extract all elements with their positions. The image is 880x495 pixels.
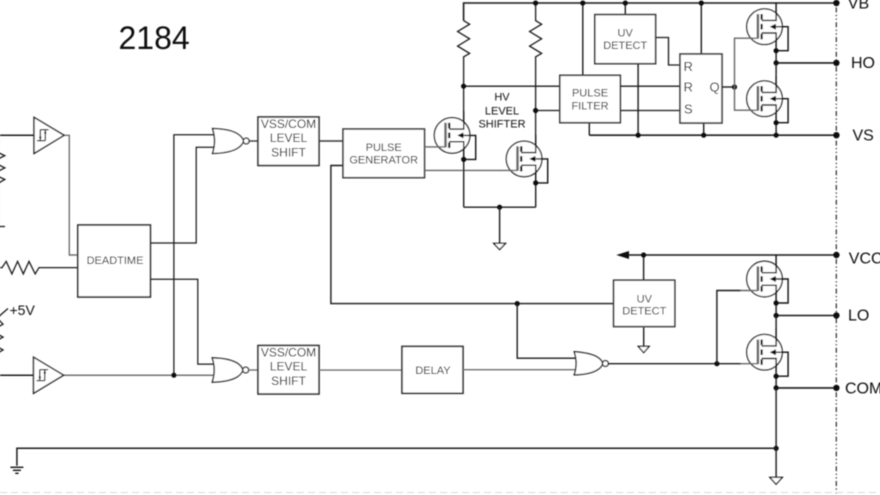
- transistor M2: [500, 135, 548, 186]
- svg-text:DEADTIME: DEADTIME: [87, 255, 144, 267]
- transistor M6: [741, 328, 789, 379]
- box PULSE GENERATOR: [343, 129, 425, 178]
- svg-text:VSS/COM: VSS/COM: [261, 346, 316, 360]
- latch U3 (RS latch): [680, 54, 722, 123]
- svg-text:VSS/COM: VSS/COM: [261, 117, 316, 131]
- svg-text:LO: LO: [848, 307, 869, 324]
- label HV LEVEL SHIFTER: [478, 92, 525, 131]
- svg-text:DELAY: DELAY: [415, 365, 451, 377]
- resistor R1 (clipped at left edge): [0, 135, 5, 222]
- NOR gate G2: [212, 358, 248, 382]
- wire gate lead M1: [425, 146, 429, 148]
- svg-text:LEVEL: LEVEL: [270, 359, 308, 373]
- wire to VS arrow: [499, 207, 501, 243]
- wire VB rail: [464, 3, 837, 21]
- svg-text:HO: HO: [851, 55, 875, 72]
- svg-text:LEVEL: LEVEL: [270, 131, 308, 145]
- svg-text:DETECT: DETECT: [622, 306, 666, 318]
- svg-text:R: R: [684, 59, 693, 74]
- wire LO: [776, 315, 836, 317]
- resistor R5 (level shifter right): [530, 3, 542, 135]
- wire G3 out to gates: [608, 363, 741, 365]
- wire to DELAY: [319, 369, 402, 371]
- svg-text:LEVEL: LEVEL: [485, 105, 519, 117]
- wire M6 drain up: [775, 316, 777, 329]
- pin COM: [833, 385, 839, 391]
- svg-text:Q: Q: [710, 80, 720, 95]
- wire ground bus: [17, 448, 776, 465]
- bottom faint boundary: [0, 492, 880, 494]
- node junction LIN line: [171, 373, 176, 378]
- node junction: [515, 301, 520, 306]
- buffer U2 (schmitt): [34, 357, 64, 393]
- ground symbol: [10, 467, 23, 473]
- wire LIN input: [0, 374, 34, 376]
- transistor M5: [741, 255, 789, 306]
- wire VS rail: [589, 134, 836, 136]
- UV low open arrow: [638, 346, 649, 352]
- wire latch bottom to VS rail: [703, 123, 705, 135]
- wire pulse gen to UV detect low: [331, 166, 614, 304]
- svg-text:HV: HV: [494, 92, 510, 104]
- wire VB to pulse filter: [582, 3, 584, 75]
- pin VB: [833, 0, 839, 6]
- wire R4 node to pulse filter R: [464, 85, 560, 87]
- box PULSE FILTER: [560, 75, 621, 122]
- wire crossover HIN to G1: [174, 135, 217, 376]
- pin LO: [833, 312, 839, 318]
- svg-text:SHIFTER: SHIFTER: [478, 119, 525, 131]
- NOR gate G1: [213, 129, 250, 154]
- svg-text:2184: 2184: [119, 20, 190, 56]
- wire M6 source to COM: [775, 376, 777, 388]
- wire gate bus high side: [735, 38, 741, 110]
- svg-text:+5V: +5V: [10, 302, 36, 318]
- svg-text:GENERATOR: GENERATOR: [349, 155, 418, 167]
- wire gate lead M2: [425, 169, 501, 171]
- wire DELAY to NOR G3: [463, 369, 579, 371]
- buffer U1 (schmitt): [34, 117, 64, 153]
- wire R5 node to pulse filter S: [536, 110, 560, 112]
- transistor M1: [428, 111, 476, 162]
- box UV DETECT (high): [595, 15, 656, 64]
- pin VS: [833, 132, 839, 138]
- wire M5 source to LO: [775, 303, 777, 316]
- wire DEADTIME out1 to NOR G1: [150, 147, 216, 243]
- wire M2 source down: [535, 183, 537, 207]
- pin VCC: [833, 252, 839, 258]
- wire Q out: [722, 86, 735, 88]
- svg-text:UV: UV: [618, 28, 634, 40]
- box VSS/COM LEVEL SHIFT (high): [258, 117, 319, 166]
- svg-text:VCC: VCC: [849, 251, 880, 268]
- VS open arrow: [494, 243, 506, 249]
- wire to pulse generator: [319, 140, 343, 142]
- wire COM: [776, 387, 836, 389]
- IC boundary (dash-dot): [835, 0, 837, 495]
- transistor M3: [741, 3, 789, 54]
- svg-text:FILTER: FILTER: [571, 101, 608, 113]
- wire gate bus low side: [717, 291, 741, 364]
- box UV DETECT (low): [614, 280, 675, 326]
- box DEADTIME: [78, 225, 151, 297]
- node VB-R5: [533, 0, 538, 5]
- wire M1 source down: [463, 159, 465, 207]
- box DELAY: [402, 346, 463, 393]
- wire M4 drain up: [775, 63, 777, 75]
- svg-text:UV: UV: [637, 294, 653, 306]
- COM open arrow: [770, 477, 783, 484]
- wire HO: [776, 62, 836, 64]
- wire VCC rail: [629, 254, 837, 256]
- wire buffer U1 output to DEADTIME: [64, 135, 78, 255]
- wire buffer U2 output: [64, 374, 217, 376]
- resistor R4 (level shifter left): [458, 21, 470, 112]
- resistor R3 (horizontal, DT input): [0, 261, 78, 274]
- wire VCC to UV detect low: [643, 255, 645, 280]
- wire PF to latch R: [620, 85, 680, 87]
- wire level shifter common rail: [464, 206, 536, 208]
- svg-text:SHIFT: SHIFT: [271, 374, 306, 388]
- svg-text:DETECT: DETECT: [603, 40, 647, 52]
- resistor R2 (clipped at left edge, pull-up): [0, 309, 8, 376]
- wire DEADTIME out2 to NOR G2: [150, 279, 216, 364]
- svg-text:PULSE: PULSE: [572, 88, 608, 100]
- wire M3 source to HO: [775, 51, 777, 63]
- box VSS/COM LEVEL SHIFT (low): [258, 346, 319, 395]
- pin HO: [833, 60, 839, 66]
- wire PF to latch S: [620, 110, 680, 112]
- wire G1 out: [249, 140, 258, 142]
- wire HIN input: [0, 134, 34, 136]
- svg-text:VB: VB: [848, 0, 869, 13]
- svg-text:S: S: [684, 102, 693, 117]
- transistor M4: [741, 75, 789, 126]
- svg-text:VS: VS: [853, 127, 874, 144]
- svg-text:R: R: [684, 80, 693, 95]
- wire pulse filter bottom to VS rail: [588, 123, 590, 136]
- wire junction down to NOR G3: [517, 304, 578, 359]
- svg-text:PULSE: PULSE: [366, 142, 402, 154]
- wire M4 source to VS rail: [775, 123, 777, 136]
- wire G2 out: [249, 369, 258, 371]
- VCC arrow: [616, 251, 629, 259]
- ground (clipped at left edge): [0, 226, 5, 228]
- wire COM down: [775, 388, 777, 448]
- NOR gate G3: [574, 352, 608, 375]
- wire VB to UV detect high: [624, 3, 626, 15]
- wire UV low to arrow: [643, 328, 645, 347]
- wire UV high bottom to VS rail: [637, 64, 639, 136]
- wire VB to latch top: [700, 3, 702, 54]
- wire UV high out to latch R1: [656, 38, 680, 66]
- svg-text:SHIFT: SHIFT: [271, 146, 306, 160]
- svg-text:COM: COM: [845, 381, 880, 398]
- wire COM to arrow: [775, 448, 777, 477]
